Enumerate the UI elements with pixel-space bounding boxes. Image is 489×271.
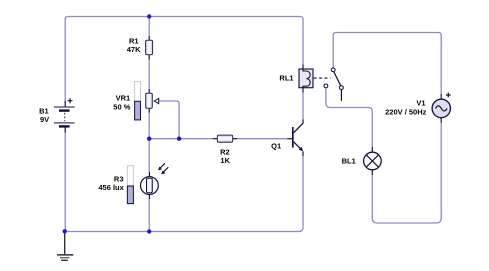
VR1 level indicator bar [135, 82, 141, 120]
relay RL1 coil [299, 65, 313, 93]
wire top rail to R1 [148, 17, 150, 37]
wire battery bottom to bottom rail [64, 131, 66, 232]
svg-text:B1: B1 [39, 106, 49, 115]
label R1 47K [127, 37, 141, 55]
label R2 1K [220, 148, 230, 166]
label B1 9V [39, 106, 49, 124]
wire VR1 to node and R3 top [148, 113, 150, 173]
battery B1 [54, 98, 75, 132]
R3 level indicator bar [127, 166, 133, 204]
svg-text:47K: 47K [127, 45, 141, 54]
wire NC contact stub [340, 90, 342, 101]
AC source V1 [432, 93, 451, 123]
label VR1 50% [113, 94, 130, 112]
svg-text:456 lux: 456 lux [98, 183, 124, 192]
wire BL1 bottom to V1 bottom [372, 123, 441, 224]
label Q1 [271, 142, 281, 151]
relay link dashed line [314, 77, 331, 79]
transistor Q1 [287, 119, 303, 156]
wire node to R2 left [149, 138, 213, 140]
relay switch contacts [324, 68, 343, 90]
node junction ground / bottom rail [62, 229, 66, 233]
wire R1 to VR1 [148, 60, 150, 90]
label V1 220V/50Hz [385, 98, 427, 116]
label BL1 [342, 156, 356, 165]
svg-text:1K: 1K [220, 156, 230, 165]
node junction top rail / R1 [147, 14, 151, 18]
svg-text:VR1: VR1 [116, 94, 131, 103]
wire R2 right to Q1 base [237, 138, 287, 140]
wire top rail from battery top to relay branch [65, 17, 303, 104]
svg-text:Q1: Q1 [271, 142, 281, 151]
ground [57, 233, 73, 260]
photoresistor R3 (LDR) [141, 163, 169, 199]
svg-text:R1: R1 [129, 37, 139, 46]
wire switch NO contact to BL1 top [326, 88, 372, 147]
lamp BL1 [364, 147, 382, 175]
wire bottom rail to emitter [65, 156, 303, 232]
svg-text:R3: R3 [114, 174, 124, 183]
wire R3 bottom to bottom rail [148, 199, 150, 232]
node junction R3 bottom / bottom rail [147, 229, 151, 233]
svg-text:50 %: 50 % [113, 103, 130, 112]
node junction VR1 bottom / R3 / R2 [147, 137, 151, 141]
svg-text:V1: V1 [416, 98, 425, 107]
resistor R2 [213, 135, 238, 142]
svg-text:220V / 50Hz: 220V / 50Hz [385, 108, 427, 117]
label RL1 [279, 74, 293, 83]
svg-text:RL1: RL1 [279, 74, 293, 83]
svg-text:BL1: BL1 [342, 156, 356, 165]
label R3 456 lux [98, 174, 124, 192]
potentiometer VR1 [146, 89, 159, 113]
wire VR1 wiper to node [159, 101, 179, 139]
node junction wiper / node wire [177, 137, 181, 141]
wire relay bottom to Q1 collector [302, 93, 304, 120]
resistor R1 [146, 36, 153, 60]
svg-text:R2: R2 [220, 148, 230, 157]
svg-text:9V: 9V [40, 115, 49, 124]
wire switch common to V1 top [333, 33, 441, 95]
